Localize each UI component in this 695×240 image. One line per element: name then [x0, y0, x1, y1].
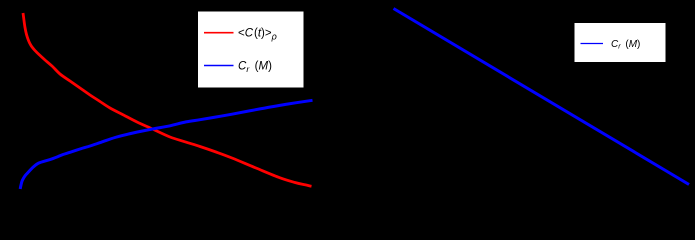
- svg-text:Cr (M): Cr (M): [238, 60, 272, 73]
- legend box (left plot): [198, 11, 305, 88]
- curve blue Cr(M) (left plot): [20, 100, 312, 189]
- curve red <C(t)>p (left plot): [23, 13, 312, 186]
- line blue Cr(M) (right plot): [394, 9, 690, 185]
- legend box (right plot): [574, 23, 666, 63]
- svg-text:Cr (M): Cr (M): [611, 39, 640, 51]
- svg-text:<C (t)>ρ: <C (t)>ρ: [238, 28, 277, 42]
- legend sample line blue (right): [581, 43, 604, 45]
- legend sample line red: [204, 32, 234, 34]
- legend sample line blue: [204, 65, 234, 67]
